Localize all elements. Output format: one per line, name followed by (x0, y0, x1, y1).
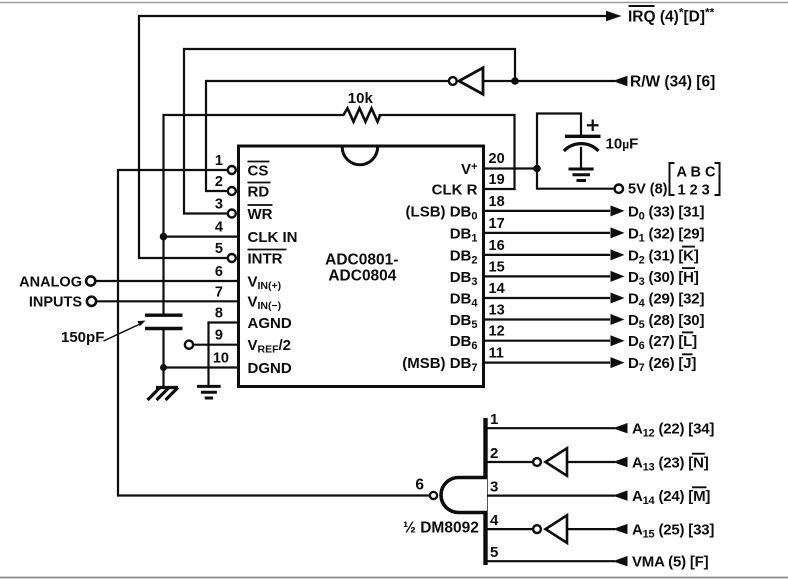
wire DB2 pin16 (484, 254, 610, 256)
svg-text:D2 (31) [K]: D2 (31) [K] (628, 247, 699, 266)
scan edge top (0, 2, 788, 4)
wire IRQ net: INTR pin5 up and across to IRQ arrow (139, 16, 607, 258)
svg-text:7: 7 (215, 284, 223, 300)
svg-text:5: 5 (215, 241, 223, 257)
svg-text:8: 8 (215, 306, 223, 322)
ground earth under DGND (197, 386, 221, 398)
arrow D6 (611, 335, 625, 346)
wire VIN(-) pin7 (96, 300, 239, 302)
svg-text:13: 13 (489, 303, 505, 319)
wire A15 inverter to arrow (567, 528, 614, 530)
IC pin label CS (248, 162, 270, 180)
svg-text:D7 (26) [J]: D7 (26) [J] (628, 355, 696, 374)
wire AGND pin8 down to earth ground (209, 323, 239, 387)
wire 10uF cap top loop (537, 114, 581, 169)
resistor R1 10k (343, 90, 380, 122)
wire V+ pin20 to 10uF junction (484, 167, 538, 169)
IC notch (342, 147, 377, 165)
ground chassis under 150pF (148, 388, 179, 401)
svg-text:INTR: INTR (248, 250, 283, 267)
svg-text:R/W (34) [6]: R/W (34) [6] (630, 73, 715, 90)
svg-text:AGND: AGND (248, 315, 292, 332)
junction dot DGND node (160, 364, 167, 371)
wire CLK R stub (484, 188, 515, 190)
arrow A12 (613, 423, 628, 433)
wire A15 input line to inverter (488, 528, 533, 530)
pin bubble WR pin3 (228, 210, 236, 218)
svg-text:WR: WR (248, 206, 273, 223)
wire CLK IN junction to 150pF cap (162, 237, 164, 314)
svg-text:15: 15 (489, 259, 505, 275)
bus bar DM8092 inputs (483, 418, 487, 565)
arrow D7 (611, 357, 625, 368)
svg-text:4: 4 (215, 220, 223, 236)
svg-text:INPUTS: INPUTS (29, 295, 83, 311)
inverter U5 on A15 (533, 515, 567, 543)
wire DGND pin10 to ground junction (164, 366, 239, 368)
svg-text:VMA (5) [F]: VMA (5) [F] (632, 554, 709, 571)
wire CLK IN stub (164, 236, 239, 238)
svg-text:½ DM8092: ½ DM8092 (403, 520, 479, 537)
wire DB7 pin11 (484, 362, 610, 364)
svg-text:IRQ (4)*[D]**: IRQ (4)*[D]** (628, 5, 715, 25)
svg-text:D6 (27) [L]: D6 (27) [L] (628, 333, 697, 352)
arrow R/W (613, 76, 628, 86)
svg-text:DGND: DGND (248, 360, 292, 377)
svg-text:5: 5 (490, 544, 498, 561)
svg-text:14: 14 (489, 281, 505, 297)
svg-text:10k: 10k (348, 90, 374, 107)
wire A14 input line (488, 495, 615, 497)
wire resistor net left: top line to CLK IN (164, 115, 344, 237)
terminal circle analog input - (87, 297, 96, 306)
IC name label (325, 251, 398, 284)
wire A13 inverter to arrow (567, 461, 614, 463)
pin bubble CS pin1 (228, 166, 236, 174)
arrow D2 (611, 249, 625, 260)
svg-text:2: 2 (215, 174, 223, 190)
wire 150pF cap bottom to ground (162, 330, 164, 388)
IC pin label RD (248, 183, 271, 201)
wire 10uF cap bottom to earth ground (580, 148, 582, 167)
arrow VMA (613, 556, 628, 566)
arrow A15 (613, 524, 628, 534)
wire VIN(+) pin6 (95, 280, 239, 282)
svg-text:6: 6 (415, 477, 424, 494)
junction dot V+ node (533, 165, 541, 173)
svg-text:9: 9 (215, 328, 223, 344)
svg-text:RD: RD (248, 183, 270, 200)
wire CS net: CS pin1 left, down, across bottom to NAND output (118, 170, 429, 496)
bracket note ABC 123 (670, 163, 720, 199)
wire DB1 pin17 (484, 232, 610, 234)
terminal circle 5V (615, 185, 623, 193)
wire DB4 pin14 (484, 297, 610, 299)
arrow A14 (613, 490, 628, 500)
scan edge bottom (0, 577, 788, 579)
svg-text:3: 3 (215, 197, 223, 213)
svg-text:(LSB) DB0: (LSB) DB0 (406, 203, 478, 222)
svg-text:150pF: 150pF (61, 329, 104, 346)
svg-text:1 2 3: 1 2 3 (678, 183, 710, 199)
arrow D4 (611, 293, 625, 304)
arrow D3 (611, 271, 625, 282)
wire resistor net right: to CLK R (380, 115, 515, 189)
wire DB3 pin15 (484, 275, 610, 277)
svg-text:10: 10 (213, 351, 229, 367)
arrow D5 (611, 314, 625, 325)
wire junction down to 5V line (537, 169, 615, 189)
pin bubble INTR pin5 (228, 254, 236, 262)
svg-text:(MSB) DB7: (MSB) DB7 (402, 355, 477, 374)
pin bubble RD pin2 (228, 187, 236, 195)
svg-text:2: 2 (490, 445, 498, 462)
svg-text:1: 1 (490, 411, 498, 428)
arrow D1 (611, 227, 625, 238)
svg-text:3: 3 (490, 479, 498, 496)
svg-text:CS: CS (248, 162, 269, 179)
wire A13 input line to inverter (488, 461, 533, 463)
svg-text:20: 20 (489, 151, 505, 167)
svg-text:6: 6 (215, 264, 223, 280)
gate U3 NAND 1/2 DM8092 (403, 477, 487, 537)
svg-text:ADC0804: ADC0804 (328, 267, 396, 284)
wire DB6 pin12 (484, 340, 610, 342)
svg-text:18: 18 (489, 194, 505, 210)
wire WR net: WR pin3 up and across to R/W junction (184, 49, 515, 214)
svg-text:10µF: 10µF (606, 136, 639, 153)
junction dot R/W node (511, 77, 519, 85)
wire DB5 pin13 (484, 318, 610, 320)
svg-text:5V (8): 5V (8) (628, 182, 668, 198)
arrow D0 (611, 205, 625, 216)
IC pin label INTR (248, 250, 287, 268)
terminal circle VREF/2 (185, 341, 193, 349)
svg-text:CLK R: CLK R (432, 181, 478, 198)
ground earth under 10uF (569, 169, 594, 181)
svg-text:1: 1 (215, 153, 223, 169)
IC pin label WR (248, 205, 273, 223)
svg-text:17: 17 (489, 216, 505, 232)
svg-text:ANALOG: ANALOG (19, 275, 82, 291)
arrow A13 (613, 457, 628, 467)
svg-text:16: 16 (489, 238, 505, 254)
wire VMA input line (488, 560, 615, 562)
svg-text:19: 19 (489, 172, 505, 188)
wire A12 input line (488, 427, 615, 429)
svg-text:A B C: A B C (677, 165, 716, 181)
wire VREF/2 pin9 (193, 344, 238, 346)
wire R/W line from inverter base to arrow (483, 80, 614, 82)
inverter U2 on R/W line (449, 68, 483, 94)
IC U1 ADC0801-ADC0804 body (239, 146, 484, 387)
capacitor C2 10uF polarized (564, 120, 638, 153)
svg-text:ADC0801-: ADC0801- (325, 251, 398, 268)
svg-text:4: 4 (490, 512, 499, 529)
capacitor C1 150pF (61, 315, 183, 346)
svg-text:11: 11 (489, 346, 504, 362)
inverter U4 on A13 (533, 448, 567, 476)
arrow IRQ (606, 11, 622, 21)
svg-text:D3 (30) [H]: D3 (30) [H] (628, 269, 699, 288)
wire DB0 pin18 (484, 210, 610, 212)
terminal circle analog input + (86, 276, 95, 285)
svg-text:12: 12 (489, 324, 505, 340)
junction dot CLK IN node (160, 233, 168, 241)
svg-text:CLK IN: CLK IN (248, 229, 298, 246)
wire RD net: RD pin2 up to R/W inverter line (206, 81, 449, 191)
